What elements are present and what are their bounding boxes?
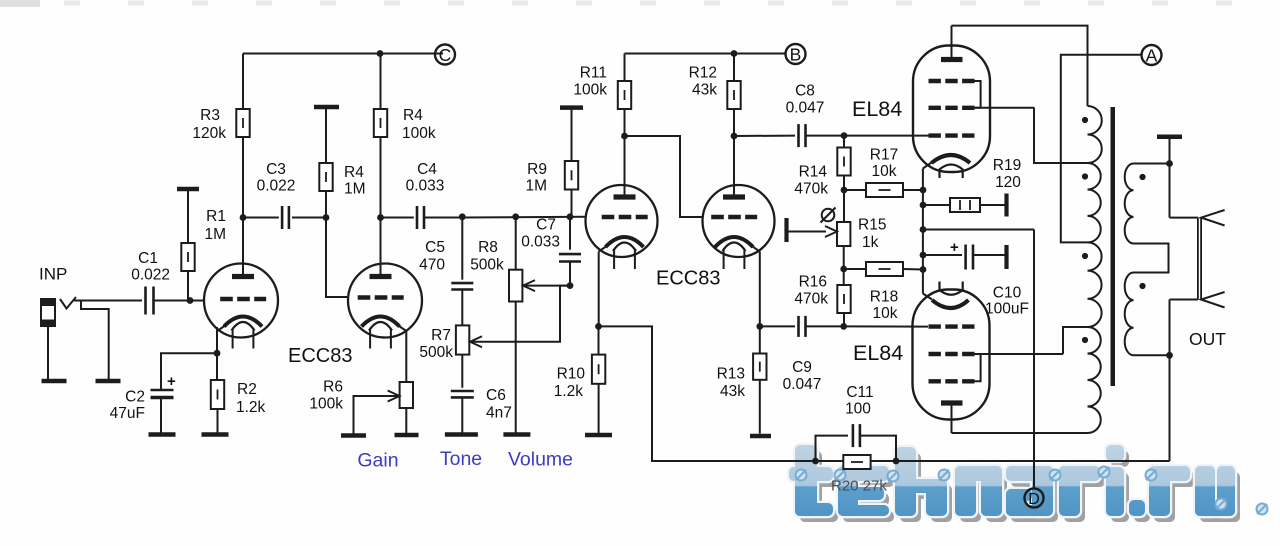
svg-text:Volume: Volume — [508, 449, 573, 471]
svg-text:C8: C8 — [795, 83, 815, 100]
svg-text:R12: R12 — [689, 65, 717, 82]
svg-text:D: D — [1028, 491, 1040, 508]
svg-text:10k: 10k — [872, 163, 897, 180]
svg-text:R13: R13 — [717, 366, 745, 383]
svg-text:120k: 120k — [192, 125, 226, 142]
svg-text:C4: C4 — [417, 161, 437, 178]
svg-text:OUT: OUT — [1189, 329, 1226, 349]
svg-text:Gain: Gain — [357, 450, 398, 472]
svg-text:C7: C7 — [536, 217, 556, 234]
svg-text:0.022: 0.022 — [257, 178, 296, 195]
svg-text:R8: R8 — [478, 239, 498, 256]
svg-text:R6: R6 — [323, 379, 343, 396]
svg-text:+: + — [950, 239, 959, 256]
svg-text:470: 470 — [419, 257, 445, 274]
svg-text:R19: R19 — [993, 157, 1021, 174]
svg-text:R14: R14 — [799, 164, 828, 181]
svg-text:0.047: 0.047 — [783, 376, 822, 393]
svg-text:R18: R18 — [870, 289, 898, 306]
svg-text:ECC83: ECC83 — [656, 268, 720, 290]
svg-text:500k: 500k — [419, 344, 453, 361]
svg-text:R3: R3 — [200, 107, 220, 124]
svg-text:INP: INP — [39, 265, 67, 284]
svg-text:A: A — [1146, 45, 1158, 65]
svg-text:C1: C1 — [138, 250, 158, 267]
svg-text:0.022: 0.022 — [131, 267, 170, 284]
svg-text:1.2k: 1.2k — [236, 399, 266, 416]
svg-text:0.047: 0.047 — [786, 100, 825, 117]
svg-text:R4: R4 — [344, 164, 364, 181]
svg-text:1M: 1M — [344, 181, 366, 198]
svg-text:C6: C6 — [486, 387, 506, 404]
svg-text:470k: 470k — [794, 181, 828, 198]
svg-text:43k: 43k — [720, 383, 745, 400]
svg-text:R10: R10 — [557, 366, 586, 383]
svg-text:C11: C11 — [846, 384, 873, 401]
svg-text:100uF: 100uF — [985, 301, 1029, 318]
svg-text:+: + — [167, 373, 176, 390]
svg-text:C9: C9 — [792, 359, 812, 376]
svg-text:1M: 1M — [525, 178, 547, 195]
svg-text:C: C — [439, 45, 452, 65]
svg-text:R15: R15 — [858, 217, 886, 234]
svg-text:R2: R2 — [237, 381, 257, 398]
svg-text:R7: R7 — [431, 327, 451, 344]
svg-text:1M: 1M — [204, 226, 226, 243]
svg-text:R16: R16 — [799, 274, 827, 291]
svg-text:Tone: Tone — [440, 448, 482, 470]
svg-text:43k: 43k — [692, 82, 717, 99]
svg-text:0.033: 0.033 — [521, 234, 560, 251]
svg-text:100k: 100k — [309, 396, 343, 413]
svg-text:R17: R17 — [870, 147, 898, 164]
svg-text:EL84: EL84 — [852, 97, 902, 121]
svg-text:4n7: 4n7 — [486, 405, 512, 422]
svg-text:C10: C10 — [993, 285, 1022, 302]
svg-text:0.033: 0.033 — [406, 178, 445, 195]
svg-text:10k: 10k — [873, 305, 898, 322]
svg-text:100k: 100k — [402, 125, 436, 142]
svg-text:C3: C3 — [266, 161, 286, 178]
svg-text:R4: R4 — [403, 107, 423, 124]
svg-text:47uF: 47uF — [110, 405, 145, 422]
svg-text:470k: 470k — [794, 291, 828, 308]
svg-text:B: B — [790, 44, 802, 64]
svg-text:1.2k: 1.2k — [554, 383, 584, 400]
svg-text:R11: R11 — [580, 65, 607, 82]
svg-text:100k: 100k — [573, 82, 607, 99]
svg-text:1k: 1k — [862, 234, 879, 251]
svg-text:R20 27k: R20 27k — [831, 478, 887, 495]
svg-text:100: 100 — [845, 401, 871, 418]
svg-text:C5: C5 — [425, 239, 445, 256]
svg-text:R1: R1 — [206, 208, 226, 225]
svg-text:C2: C2 — [125, 389, 145, 406]
svg-text:ECC83: ECC83 — [288, 345, 352, 367]
svg-text:500k: 500k — [470, 257, 504, 274]
svg-text:120: 120 — [995, 174, 1021, 191]
svg-text:EL84: EL84 — [853, 341, 903, 365]
svg-text:R9: R9 — [527, 161, 547, 178]
